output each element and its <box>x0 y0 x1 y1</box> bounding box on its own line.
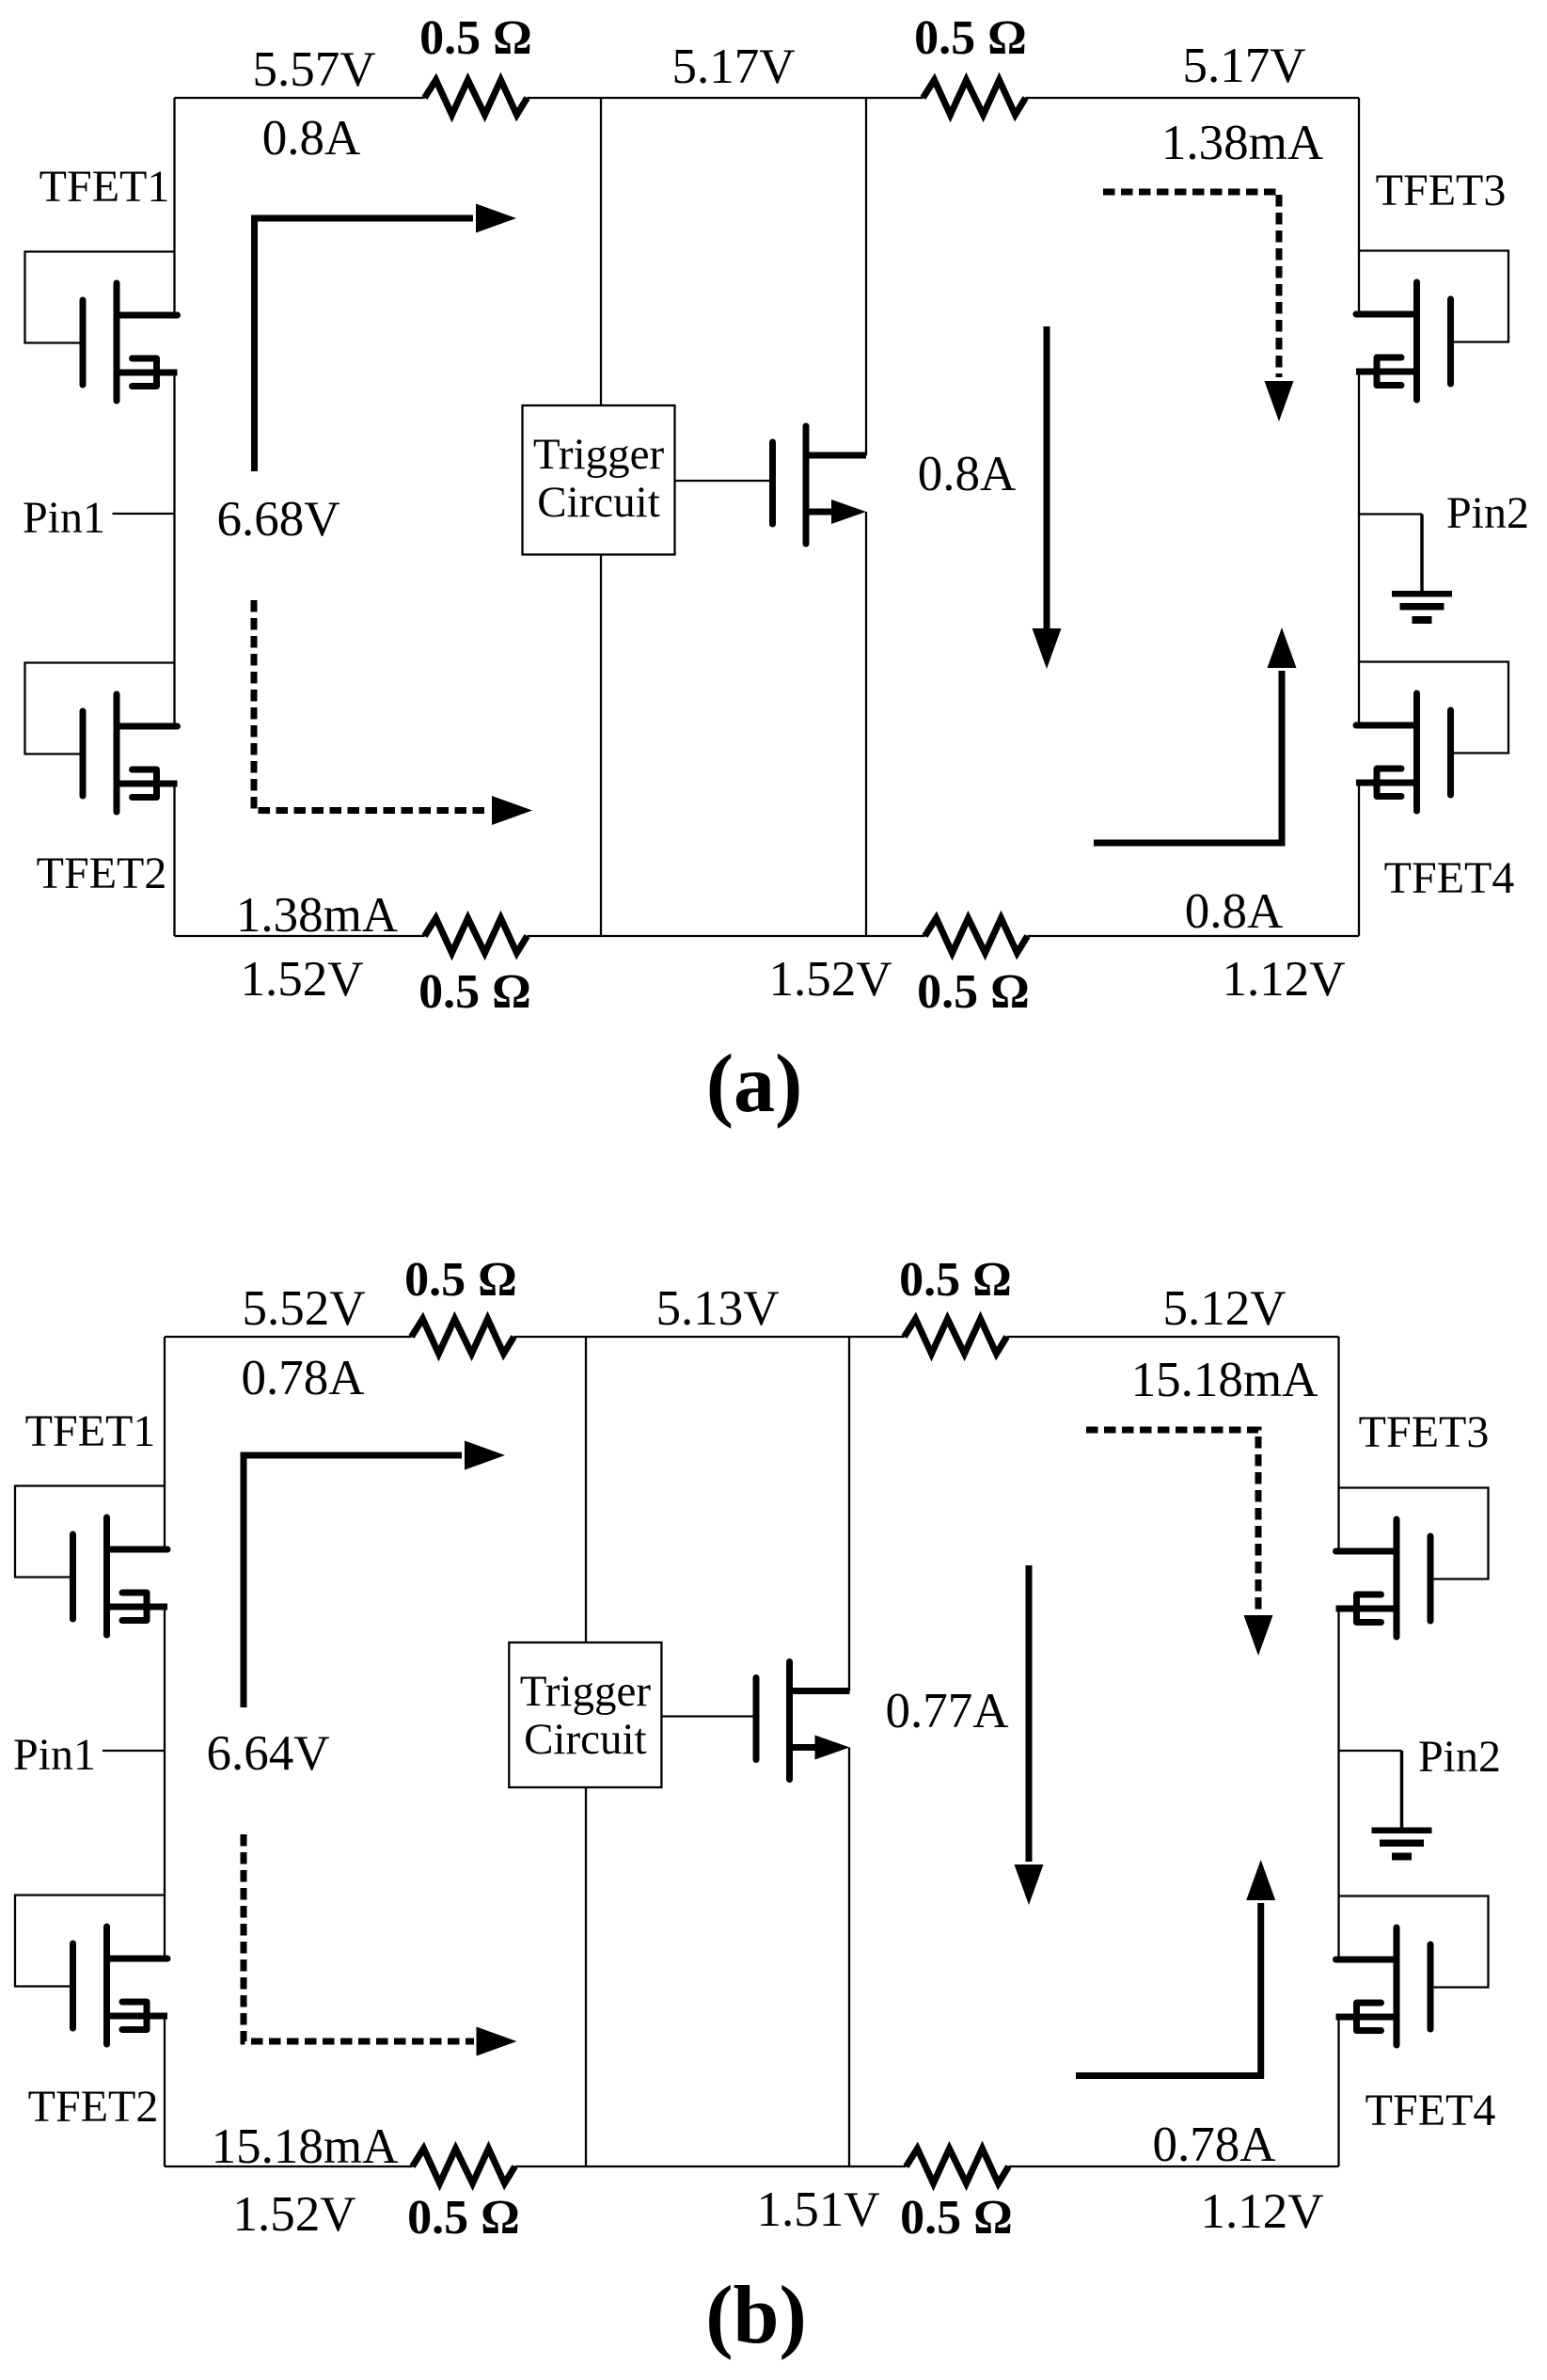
wire right rail lower segment (b) <box>1337 2017 1339 2166</box>
resistor R2b 0.5 ohm (top right, b) <box>905 1319 1007 1354</box>
wire left rail middle segment (b) <box>164 1607 166 1959</box>
svg-text:Trigger: Trigger <box>520 1667 652 1716</box>
svg-text:Pin2: Pin2 <box>1446 488 1529 538</box>
svg-text:(a): (a) <box>706 1039 803 1130</box>
svg-text:1.52V: 1.52V <box>232 2187 355 2242</box>
svg-text:5.17V: 5.17V <box>671 40 795 94</box>
transistor TFET3 (a) <box>1356 251 1508 401</box>
ground at Pin2 (b) <box>1339 1751 1432 1861</box>
wire right rail upper segment (b) <box>1337 1337 1339 1551</box>
wire left rail middle segment (a) <box>173 373 175 726</box>
wire left rail lower segment (b) <box>164 2016 166 2166</box>
svg-text:0.5 Ω: 0.5 Ω <box>418 965 531 1019</box>
svg-text:5.17V: 5.17V <box>1182 39 1305 93</box>
svg-text:Trigger: Trigger <box>533 430 665 479</box>
svg-text:6.68V: 6.68V <box>216 492 339 547</box>
wire left rail upper segment (b) <box>164 1337 166 1549</box>
svg-text:0.78A: 0.78A <box>1152 2118 1275 2172</box>
ground at Pin2 (a) <box>1359 515 1452 625</box>
svg-text:1.12V: 1.12V <box>1222 952 1345 1007</box>
wire right rail lower segment (a) <box>1358 783 1360 936</box>
svg-text:0.5 Ω: 0.5 Ω <box>917 965 1030 1019</box>
transistor Q1 nmos (b) <box>756 1662 850 1780</box>
arrow solid current path TFET4 (b) <box>1076 1860 1275 2076</box>
wire mosfet branch lower (a) <box>865 512 867 936</box>
svg-text:1.52V: 1.52V <box>768 952 892 1007</box>
arrow solid current down middle (a) <box>1033 326 1062 669</box>
trigger circuit block U1 (b) <box>509 1642 661 1787</box>
wire mosfet branch upper (a) <box>865 98 867 455</box>
resistor R3a 0.5 ohm (bottom left, a) <box>425 918 528 953</box>
svg-text:5.57V: 5.57V <box>252 42 375 97</box>
svg-text:0.77A: 0.77A <box>885 1684 1008 1738</box>
svg-text:1.52V: 1.52V <box>240 952 363 1007</box>
transistor TFET1 (a) <box>25 252 178 402</box>
resistor R1b 0.5 ohm (top left, b) <box>412 1319 514 1354</box>
svg-text:0.8A: 0.8A <box>918 447 1017 501</box>
trigger circuit block U1 (a) <box>523 405 675 555</box>
wire trigger to mosfet gate (a) <box>675 480 770 482</box>
svg-text:0.8A: 0.8A <box>1185 884 1284 939</box>
wire top rail left segment (a) <box>175 97 425 99</box>
arrow solid current down middle (b) <box>1015 1565 1044 1905</box>
wire trigger branch upper (b) <box>585 1337 587 1642</box>
wire trigger branch upper (a) <box>600 98 602 405</box>
svg-text:Pin2: Pin2 <box>1418 1732 1501 1782</box>
svg-text:0.5 Ω: 0.5 Ω <box>899 1253 1012 1307</box>
svg-text:Circuit: Circuit <box>537 478 660 527</box>
wire trigger to mosfet gate (b) <box>661 1715 753 1717</box>
resistor R2a 0.5 ohm (top right, a) <box>923 80 1026 115</box>
svg-text:TFET3: TFET3 <box>1359 1407 1490 1457</box>
wire trigger branch lower (b) <box>585 1787 587 2166</box>
svg-text:1.12V: 1.12V <box>1200 2184 1323 2239</box>
wire right rail upper segment (a) <box>1358 98 1360 314</box>
wire left rail upper segment (a) <box>173 98 175 315</box>
svg-text:TFET1: TFET1 <box>39 162 170 212</box>
resistor R4a 0.5 ohm (bottom right, a) <box>925 918 1028 953</box>
transistor TFET2 (a) <box>25 663 178 813</box>
transistor Q1 nmos (a) <box>773 426 867 544</box>
wire bottom rail right segment (b) <box>1009 2166 1339 2167</box>
wire top rail middle segment (a) <box>528 97 923 99</box>
wire bottom rail left segment (a) <box>175 935 425 937</box>
svg-text:0.5 Ω: 0.5 Ω <box>900 2191 1013 2245</box>
transistor TFET3 (b) <box>1336 1488 1489 1638</box>
svg-text:TFET2: TFET2 <box>28 2082 159 2132</box>
wire top rail right segment (b) <box>1007 1336 1339 1338</box>
svg-text:5.52V: 5.52V <box>242 1281 365 1336</box>
wire top rail left segment (b) <box>165 1336 412 1338</box>
arrow dashed leakage path TFET3 (a) <box>1103 192 1294 421</box>
svg-text:0.5 Ω: 0.5 Ω <box>404 1253 517 1307</box>
transistor TFET4 (b) <box>1336 1896 1489 2046</box>
wire bottom rail middle segment (a) <box>528 935 925 937</box>
wire right rail middle segment (b) <box>1337 1609 1339 1960</box>
wire mosfet branch upper (b) <box>848 1337 850 1691</box>
svg-text:5.12V: 5.12V <box>1162 1281 1286 1336</box>
transistor TFET4 (a) <box>1356 662 1508 812</box>
arrow solid current path TFET1 (a) <box>255 204 517 472</box>
wire mosfet branch lower (b) <box>848 1748 850 2167</box>
svg-text:Pin1: Pin1 <box>23 493 105 543</box>
svg-text:1.38mA: 1.38mA <box>236 888 398 943</box>
svg-text:15.18mA: 15.18mA <box>1131 1353 1318 1407</box>
resistor R1a 0.5 ohm (top left, a) <box>425 80 528 115</box>
wire top rail right segment (a) <box>1026 97 1360 99</box>
arrow dashed leakage path TFET3 (b) <box>1086 1430 1273 1656</box>
resistor R4b 0.5 ohm (bottom right, b) <box>907 2149 1009 2183</box>
svg-text:TFET1: TFET1 <box>25 1406 156 1456</box>
svg-text:0.78A: 0.78A <box>241 1351 364 1405</box>
wire bottom rail right segment (a) <box>1028 935 1360 937</box>
wire right rail middle segment (a) <box>1358 372 1360 725</box>
svg-text:1.38mA: 1.38mA <box>1161 116 1323 170</box>
svg-text:Circuit: Circuit <box>524 1715 647 1764</box>
svg-text:1.51V: 1.51V <box>756 2182 879 2237</box>
svg-text:TFET4: TFET4 <box>1384 853 1515 903</box>
node Pin1 lead (a) <box>113 513 175 515</box>
svg-text:TFET4: TFET4 <box>1365 2086 1496 2135</box>
svg-text:6.64V: 6.64V <box>206 1726 329 1781</box>
transistor TFET1 (b) <box>15 1486 167 1636</box>
svg-text:15.18mA: 15.18mA <box>212 2119 399 2174</box>
svg-text:Pin1: Pin1 <box>13 1730 96 1780</box>
transistor TFET2 (b) <box>15 1896 167 2045</box>
svg-text:5.13V: 5.13V <box>655 1281 779 1336</box>
svg-text:TFET2: TFET2 <box>37 849 167 898</box>
arrow dashed leakage path TFET2 (a) <box>254 600 532 825</box>
resistor R3b 0.5 ohm (bottom left, b) <box>413 2149 515 2183</box>
arrow dashed leakage path TFET2 (b) <box>244 1834 517 2056</box>
wire top rail middle segment (b) <box>514 1336 905 1338</box>
svg-text:0.5 Ω: 0.5 Ω <box>914 11 1027 65</box>
wire bottom rail middle segment (b) <box>515 2166 907 2167</box>
svg-text:0.5 Ω: 0.5 Ω <box>407 2191 520 2245</box>
wire left rail lower segment (a) <box>173 784 175 936</box>
svg-text:(b): (b) <box>705 2270 807 2361</box>
arrow solid current path TFET4 (a) <box>1094 627 1297 843</box>
wire trigger branch lower (a) <box>600 555 602 937</box>
svg-text:0.5 Ω: 0.5 Ω <box>419 11 532 65</box>
svg-text:0.8A: 0.8A <box>262 111 361 166</box>
svg-text:TFET3: TFET3 <box>1376 166 1507 215</box>
arrow solid current path TFET1 (b) <box>244 1441 505 1708</box>
node Pin1 lead (b) <box>103 1750 165 1752</box>
wire bottom rail left segment (b) <box>165 2166 413 2167</box>
